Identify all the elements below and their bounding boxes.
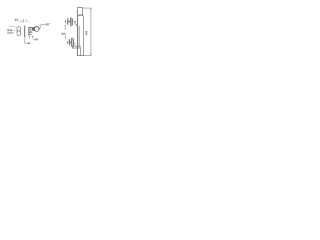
knob inner arc	[35, 27, 37, 30]
upper knob hub nub	[74, 21, 76, 23]
leader arrowhead up	[65, 24, 66, 26]
angle label text 26deg	[46, 23, 50, 25]
rotated dimension text	[86, 31, 88, 35]
leader arrow dot	[28, 42, 29, 44]
top extension line	[83, 7, 92, 9]
diameter label row 2	[7, 32, 13, 34]
upper knob collar bar	[72, 18, 74, 25]
lower knob disc bar	[68, 39, 70, 45]
knob stem	[32, 27, 35, 31]
leader curve to angle label	[39, 25, 46, 30]
top box	[77, 8, 82, 16]
lower knob neck band	[70, 41, 71, 43]
dim arrow bottom	[90, 54, 91, 56]
bottom line	[77, 55, 84, 57]
G1/2 label text left view	[35, 39, 38, 41]
leader line above label	[64, 25, 66, 30]
dimension line top	[18, 20, 23, 22]
G label dot	[34, 39, 35, 40]
extension tick B	[25, 19, 27, 22]
body right line	[83, 16, 85, 56]
dimension tail right	[26, 20, 28, 22]
knob circle	[34, 26, 39, 31]
upper knob neck band	[68, 21, 70, 23]
body step below knob	[76, 24, 77, 26]
G1/2 text right view	[61, 33, 65, 35]
lower knob collar bar	[73, 39, 75, 47]
body rib 3	[29, 31, 32, 33]
left bracket line over diameter label	[9, 26, 15, 29]
leader line below label	[64, 35, 66, 39]
lower knob flange serif	[72, 37, 74, 39]
top box inner line	[77, 14, 82, 16]
dimension text 50	[15, 19, 18, 21]
vertical dimension line	[90, 8, 92, 56]
upper knob flange bar	[70, 17, 72, 26]
escutcheon edge line	[24, 26, 26, 37]
small arrow after row 1	[13, 29, 16, 31]
dimension arrow tick	[22, 21, 24, 22]
top box left tick	[76, 12, 78, 13]
holder body bar	[28, 27, 30, 36]
body rib 4	[29, 33, 31, 35]
body top step line	[77, 15, 83, 17]
lower hook piece 2	[32, 36, 33, 38]
bottom extension line	[84, 55, 91, 57]
lower knob flange bar	[71, 38, 73, 47]
body rib 1	[29, 27, 32, 29]
upper knob cap bar	[65, 20, 67, 23]
upper knob inner bar	[74, 21, 76, 25]
main body left line	[76, 16, 78, 56]
shelf band outline	[72, 46, 80, 48]
wall plate front rect	[17, 27, 21, 36]
lower hook piece 1	[28, 36, 31, 38]
dim arrow top	[90, 8, 91, 10]
extension tick A	[22, 19, 24, 23]
body rib 2	[29, 29, 31, 31]
leader line to G label	[25, 37, 29, 43]
bottom box mid line	[79, 48, 81, 56]
body inner line	[78, 26, 80, 46]
lower knob cap bar	[66, 41, 68, 44]
diameter label row 1	[7, 29, 12, 31]
wall plate hole circle	[18, 30, 20, 32]
lower knob hub nub	[74, 43, 75, 45]
upper knob disc bar	[67, 18, 69, 24]
